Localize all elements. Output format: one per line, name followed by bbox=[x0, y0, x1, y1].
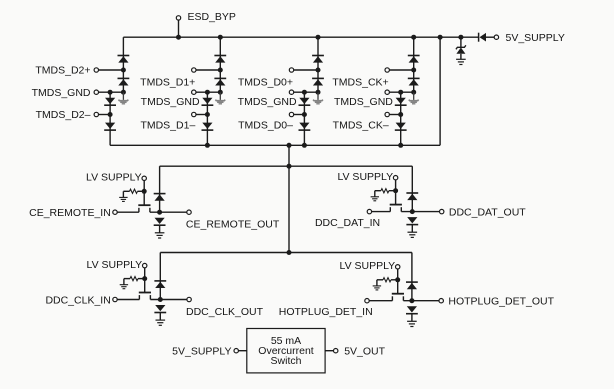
diode D2B bbox=[214, 77, 226, 79]
node gate bias Q4 HOTPLUG_DET bbox=[395, 277, 400, 282]
node Q3 DDC_CLK diode junction bbox=[158, 297, 163, 302]
node column 2 top bus junction bbox=[218, 35, 223, 40]
diode Q3 DDC_CLK clamp up bbox=[154, 280, 166, 282]
diode D4D bbox=[396, 123, 406, 129]
node column 4 bottom bus junction bbox=[398, 143, 403, 148]
transistor Q3 DDC_CLK bbox=[139, 292, 151, 294]
ground gate resistor Q2 DDC_DAT bbox=[371, 196, 379, 198]
terminal 5V_SUPPLY bottom bbox=[234, 349, 238, 353]
ground Q4 HOTPLUG_DET clamp bbox=[407, 320, 417, 322]
node column 4 top bus junction bbox=[411, 35, 416, 40]
terminal TMDS_GND col1 bbox=[94, 90, 98, 94]
wire 5V_SUPPLY lead bbox=[486, 36, 494, 38]
svg-text:LV SUPPLY: LV SUPPLY bbox=[86, 172, 142, 184]
node feed bottom bus junction bbox=[287, 143, 292, 148]
svg-text:TMDS_D0–: TMDS_D0– bbox=[238, 120, 293, 132]
svg-text:DDC_DAT_OUT: DDC_DAT_OUT bbox=[449, 206, 526, 218]
diode D3A bbox=[312, 55, 324, 57]
diode Q4 HOTPLUG_DET clamp down bbox=[407, 306, 417, 312]
wire bottom ground bus bbox=[110, 144, 440, 146]
wire right vertical rail bbox=[439, 37, 441, 145]
node TMDS_GND col4 bbox=[411, 90, 416, 95]
node TMDS_GND col2 bbox=[218, 90, 223, 95]
wire TMDS_D0– lead bbox=[294, 114, 305, 116]
svg-text:5V_OUT: 5V_OUT bbox=[344, 346, 385, 358]
wire Q2 DDC_DAT line right bbox=[401, 211, 439, 213]
node Q2 DDC_DAT diode junction bbox=[410, 209, 415, 214]
node Q4 HOTPLUG_DET diode junction bbox=[409, 298, 414, 303]
wire column 3 lower vertical bbox=[303, 92, 305, 145]
node gate bias Q1 CE_REMOTE bbox=[142, 189, 147, 194]
svg-text:DDC_DAT_IN: DDC_DAT_IN bbox=[315, 217, 380, 229]
terminal LV SUPPLY Q2 DDC_DAT bbox=[393, 176, 397, 180]
svg-text:5V_SUPPLY: 5V_SUPPLY bbox=[506, 32, 565, 44]
diode D2A bbox=[214, 55, 226, 57]
wire TMDS_D1– lead bbox=[196, 114, 207, 116]
terminal TMDS_D1– bbox=[192, 112, 196, 116]
node TMDS_GND col3 bbox=[316, 90, 321, 95]
diode D3C bbox=[299, 98, 309, 104]
transistor Q2 DDC_DAT bbox=[390, 204, 402, 206]
wire TMDS_GND lead col3 bbox=[294, 91, 318, 93]
wire LV rail 2 bbox=[160, 252, 412, 254]
wire LV supply stub Q3 DDC_CLK bbox=[144, 268, 146, 279]
terminal DDC_CLK_OUT bbox=[187, 297, 191, 301]
ground TMDS_GND gray col1 bbox=[122, 92, 124, 100]
wire LV rail 1 bbox=[160, 165, 413, 167]
resistor gate pulldown Q1 CE_REMOTE bbox=[123, 190, 129, 192]
diode D4C bbox=[396, 98, 406, 104]
diode Q1 CE_REMOTE clamp up bbox=[154, 193, 166, 195]
ground TMDS_GND gray col3 bbox=[317, 92, 319, 100]
wire resistor to ground Q4 HOTPLUG_DET bbox=[376, 280, 378, 286]
diode Q3 DDC_CLK clamp down bbox=[155, 305, 165, 311]
resistor gate pulldown Q4 HOTPLUG_DET bbox=[377, 279, 383, 281]
svg-text:TMDS_GND: TMDS_GND bbox=[141, 96, 200, 108]
svg-text:TMDS_D0+: TMDS_D0+ bbox=[238, 76, 293, 88]
svg-text:LV SUPPLY: LV SUPPLY bbox=[340, 260, 396, 272]
node gate bias Q3 DDC_CLK bbox=[142, 276, 147, 281]
svg-text:TMDS_GND: TMDS_GND bbox=[334, 96, 393, 108]
wire gate Q4 HOTPLUG_DET bbox=[397, 280, 399, 294]
node right rail top junction bbox=[438, 35, 443, 40]
diode D1C bbox=[105, 98, 115, 104]
wire Q2 DDC_DAT diode stack vertical bbox=[411, 166, 413, 211]
terminal TMDS_GND col2 bbox=[192, 90, 196, 94]
terminal TMDS_GND col3 bbox=[289, 90, 293, 94]
diode D3B bbox=[312, 77, 324, 79]
node TMDS_D1+ bbox=[218, 68, 223, 73]
node TMDS_D2+ bbox=[121, 68, 126, 73]
terminal LV SUPPLY Q4 HOTPLUG_DET bbox=[396, 265, 400, 269]
svg-text:HOTPLUG_DET_IN: HOTPLUG_DET_IN bbox=[279, 306, 373, 318]
wire resistor to ground Q1 CE_REMOTE bbox=[122, 191, 124, 197]
node column 3 top bus junction bbox=[316, 35, 321, 40]
svg-text:Switch: Switch bbox=[271, 355, 302, 367]
wire Q3 DDC_CLK diode stack vertical bbox=[159, 253, 161, 300]
wire Q1 CE_REMOTE line right bbox=[150, 211, 187, 213]
wire column 2 lower vertical bbox=[206, 92, 208, 145]
wire column 1 lower vertical bbox=[109, 92, 111, 145]
svg-text:TMDS_GND: TMDS_GND bbox=[238, 96, 297, 108]
ground zener bbox=[456, 58, 466, 60]
terminal CE_REMOTE_OUT bbox=[187, 210, 191, 214]
terminal CE_REMOTE_IN bbox=[113, 210, 117, 214]
wire Q2 DDC_DAT line left bbox=[372, 211, 391, 213]
diode D1A bbox=[118, 55, 130, 57]
wire Q1 CE_REMOTE ground stub bbox=[159, 225, 161, 233]
wire TMDS_D2– lead bbox=[99, 114, 111, 116]
node feed rail1 junction bbox=[287, 164, 292, 169]
resistor gate pulldown Q2 DDC_DAT bbox=[375, 190, 381, 192]
terminal DDC_CLK_IN bbox=[113, 297, 117, 301]
terminal TMDS_D2+ bbox=[94, 68, 98, 72]
wire column 4 upper vertical bbox=[413, 37, 415, 92]
node column 2 bottom bus junction bbox=[205, 143, 210, 148]
node TMDS_CK+ bbox=[411, 68, 416, 73]
terminal TMDS_D0– bbox=[289, 112, 293, 116]
wire gate Q1 CE_REMOTE bbox=[143, 191, 145, 205]
transistor Q1 CE_REMOTE bbox=[138, 204, 150, 206]
diode Q2 DDC_DAT clamp up bbox=[406, 192, 418, 194]
svg-text:TMDS_D1–: TMDS_D1– bbox=[140, 120, 195, 132]
node zener junction bbox=[458, 35, 463, 40]
wire Q4 HOTPLUG_DET line left bbox=[369, 300, 392, 302]
diode D3D bbox=[299, 123, 309, 129]
diode D2C bbox=[202, 98, 212, 104]
terminal TMDS_D0+ bbox=[289, 68, 293, 72]
svg-text:DDC_CLK_IN: DDC_CLK_IN bbox=[45, 294, 110, 306]
diode Q2 DDC_DAT clamp down bbox=[407, 217, 417, 223]
wire gate Q3 DDC_CLK bbox=[144, 279, 146, 293]
terminal HOTPLUG_DET_IN bbox=[365, 299, 369, 303]
wire Q4 HOTPLUG_DET line right bbox=[403, 300, 439, 302]
wire box to 5V_OUT bbox=[325, 350, 333, 352]
wire column 2 upper vertical bbox=[219, 37, 221, 92]
terminal TMDS_D1+ bbox=[192, 68, 196, 72]
svg-text:HOTPLUG_DET_OUT: HOTPLUG_DET_OUT bbox=[448, 296, 554, 308]
diode D1D bbox=[105, 123, 115, 129]
ground TMDS_GND gray col2 bbox=[219, 92, 221, 100]
wire column 3 upper vertical bbox=[317, 37, 319, 92]
node gate bias Q2 DDC_DAT bbox=[393, 188, 398, 193]
node ESD_BYP junction bbox=[176, 35, 181, 40]
wire TMDS_CK+ lead bbox=[389, 69, 413, 71]
svg-text:LV SUPPLY: LV SUPPLY bbox=[87, 259, 143, 271]
terminal LV SUPPLY Q1 CE_REMOTE bbox=[142, 176, 146, 180]
wire LV supply stub Q1 CE_REMOTE bbox=[143, 181, 145, 192]
wire 5V_SUPPLY to box bbox=[238, 350, 246, 352]
wire Q3 DDC_CLK ground stub bbox=[159, 312, 161, 320]
terminal TMDS_CK+ bbox=[385, 68, 389, 72]
diode D6 series bbox=[478, 33, 480, 42]
wire feed vertical to LV section bbox=[288, 145, 290, 252]
ground gate resistor Q4 HOTPLUG_DET bbox=[373, 285, 381, 287]
wire top supply bus bbox=[123, 36, 478, 38]
node TMDS_D2– bbox=[108, 112, 113, 117]
terminal ESD_BYP bbox=[176, 16, 180, 20]
diode Q4 HOTPLUG_DET clamp up bbox=[406, 281, 418, 283]
svg-text:TMDS_D2+: TMDS_D2+ bbox=[35, 65, 90, 77]
ground Q1 CE_REMOTE clamp bbox=[155, 232, 165, 234]
node TMDS_GND col1 bbox=[121, 90, 126, 95]
wire Q3 DDC_CLK line left bbox=[117, 299, 139, 301]
wire TMDS_D0+ lead bbox=[294, 69, 318, 71]
node column 3 bottom bus junction bbox=[302, 143, 307, 148]
ground gate resistor Q3 DDC_CLK bbox=[120, 284, 128, 286]
terminal TMDS_CK– bbox=[385, 112, 389, 116]
diode D4B bbox=[408, 77, 420, 79]
diode D1B bbox=[118, 77, 130, 79]
terminal DDC_DAT_OUT bbox=[440, 209, 444, 213]
wire zener stub bbox=[460, 37, 462, 47]
ground Q2 DDC_DAT clamp bbox=[408, 231, 418, 233]
wire TMDS_D2+ lead bbox=[99, 69, 124, 71]
diode D2D bbox=[202, 123, 212, 129]
svg-text:CE_REMOTE_IN: CE_REMOTE_IN bbox=[29, 207, 111, 219]
wire Q1 CE_REMOTE line left bbox=[117, 211, 139, 213]
transistor Q4 HOTPLUG_DET bbox=[392, 293, 404, 295]
terminal DDC_DAT_IN bbox=[367, 209, 371, 213]
wire LV supply stub Q2 DDC_DAT bbox=[395, 180, 397, 191]
terminal HOTPLUG_DET_OUT bbox=[439, 299, 443, 303]
block 55mA overcurrent switch bbox=[247, 329, 325, 373]
wire Q4 HOTPLUG_DET ground stub bbox=[411, 313, 413, 321]
terminal 5V_OUT bbox=[334, 349, 338, 353]
zener diode D5 bbox=[456, 45, 466, 49]
diode D4A bbox=[408, 55, 420, 57]
wire ESD_BYP stub bbox=[178, 20, 180, 37]
diode Q1 CE_REMOTE clamp down bbox=[155, 218, 165, 224]
wire Q2 DDC_DAT ground stub bbox=[411, 224, 413, 232]
wire TMDS_GND lead col4 bbox=[389, 91, 413, 93]
svg-text:TMDS_D2–: TMDS_D2– bbox=[36, 109, 91, 121]
svg-text:TMDS_CK–: TMDS_CK– bbox=[333, 120, 389, 132]
terminal TMDS_GND col4 bbox=[385, 90, 389, 94]
wire Q3 DDC_CLK line right bbox=[150, 299, 187, 301]
wire TMDS_GND lead col2 bbox=[196, 91, 220, 93]
svg-text:DDC_CLK_OUT: DDC_CLK_OUT bbox=[186, 306, 264, 318]
wire TMDS_CK– lead bbox=[389, 114, 400, 116]
ground gate resistor Q1 CE_REMOTE bbox=[119, 196, 127, 198]
node feed rail2 junction bbox=[287, 250, 292, 255]
terminal 5V_SUPPLY bbox=[494, 35, 498, 39]
svg-text:5V_SUPPLY: 5V_SUPPLY bbox=[172, 346, 231, 358]
ground TMDS_GND gray col4 bbox=[413, 92, 415, 100]
wire column 4 lower vertical bbox=[400, 92, 402, 145]
svg-text:ESD_BYP: ESD_BYP bbox=[188, 11, 236, 23]
wire gate Q2 DDC_DAT bbox=[395, 191, 397, 205]
svg-text:TMDS_GND: TMDS_GND bbox=[32, 87, 91, 99]
wire resistor to ground Q3 DDC_CLK bbox=[123, 279, 125, 285]
svg-text:CE_REMOTE_OUT: CE_REMOTE_OUT bbox=[186, 219, 280, 231]
ground Q3 DDC_CLK clamp bbox=[156, 319, 166, 321]
wire TMDS_D1+ lead bbox=[196, 69, 220, 71]
node TMDS_D0– bbox=[302, 112, 307, 117]
wire Q4 HOTPLUG_DET diode stack vertical bbox=[411, 253, 413, 301]
svg-text:LV SUPPLY: LV SUPPLY bbox=[337, 171, 393, 183]
terminal LV SUPPLY Q3 DDC_CLK bbox=[143, 263, 147, 267]
wire resistor to ground Q2 DDC_DAT bbox=[374, 191, 376, 197]
wire Q1 CE_REMOTE diode stack vertical bbox=[159, 166, 161, 212]
wire TMDS_GND lead col1 bbox=[99, 91, 124, 93]
node TMDS_CK– bbox=[398, 112, 403, 117]
node Q1 CE_REMOTE diode junction bbox=[157, 210, 162, 215]
wire column 1 upper vertical bbox=[122, 37, 124, 92]
terminal TMDS_D2– bbox=[94, 112, 98, 116]
node TMDS_D0+ bbox=[316, 68, 321, 73]
svg-text:TMDS_D1+: TMDS_D1+ bbox=[140, 76, 195, 88]
svg-text:TMDS_CK+: TMDS_CK+ bbox=[332, 76, 388, 88]
resistor gate pulldown Q3 DDC_CLK bbox=[124, 278, 130, 280]
node TMDS_D1– bbox=[205, 112, 210, 117]
wire LV supply stub Q4 HOTPLUG_DET bbox=[397, 269, 399, 280]
